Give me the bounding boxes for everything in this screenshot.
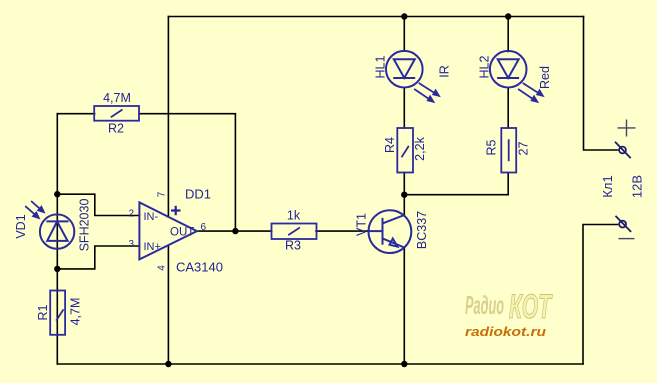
svg-text:2: 2 [129,209,135,220]
LED HL2 [490,51,527,88]
resistor R2 [94,106,139,121]
svg-text:IN+: IN+ [144,241,161,253]
wire R2 right lead to feedback node [140,114,236,231]
svg-text:R2: R2 [108,122,124,136]
wire VT1 base lead [369,230,383,232]
junction node top rail HL1 [401,13,407,19]
svg-text:HL1: HL1 [374,55,388,78]
photodiode VD1 incoming light arrows [25,201,44,218]
svg-text:1k: 1k [287,209,301,223]
svg-text:4,7M: 4,7M [69,298,83,326]
svg-text:R3: R3 [285,239,301,253]
svg-text:VD1: VD1 [14,214,28,238]
wire R3 to VT1 base [316,230,369,232]
wire right side down to plus terminal [584,17,618,151]
junction node feedback/OUT [232,228,238,234]
svg-text:SFH2030: SFH2030 [78,199,92,252]
photodiode VD1 [40,214,74,248]
connector terminal plus [615,142,631,158]
svg-text:7: 7 [157,191,168,197]
LED HL1 emission arrows [414,83,439,102]
svg-text:VT1: VT1 [355,213,369,236]
svg-text:4: 4 [157,265,168,271]
junction node photodiode bottom [54,266,60,272]
wire IN- from photodiode anode node [57,194,139,215]
wire HL1 to R4 [403,88,405,129]
svg-text:4,7M: 4,7M [103,91,131,105]
svg-text:DD1: DD1 [185,187,211,202]
resistor R3 [272,224,317,240]
op-amp plus symbol [171,206,181,215]
svg-text:Кл1: Кл1 [600,175,615,197]
LED HL2 emission arrows [518,83,543,102]
wire VT1 collector to node [403,195,405,215]
connector terminal minus [616,216,632,232]
junction node top rail HL2 [505,13,511,19]
resistor R5 [501,128,516,173]
LED HL1 [386,51,423,88]
wire left vertical branch [56,114,58,364]
resistor R1 [50,291,65,335]
wire collector node to R5 bottom [404,173,508,195]
resistor R4 [397,128,413,173]
svg-text:CA3140: CA3140 [176,260,223,275]
minus polarity sign [619,238,635,240]
wire HL2 to R5 [507,88,509,129]
svg-text:КОТ: КОТ [509,288,553,326]
svg-text:OUT: OUT [170,227,194,239]
svg-text:3: 3 [129,239,135,250]
svg-text:IR: IR [438,65,452,78]
junction node bottom rail emitter [401,361,407,367]
wire bottom rail [57,363,583,365]
svg-text:2,2k: 2,2k [413,136,427,160]
svg-text:27: 27 [517,142,531,156]
junction node photodiode top [54,191,60,197]
svg-text:radiokot.ru: radiokot.ru [465,325,546,339]
wire R2 left lead [57,113,94,115]
wire collector node to R4 [403,173,405,195]
wire IN+ from photodiode cathode node [57,246,139,269]
plus polarity sign [618,120,636,137]
op-amp U1 DD1 [139,202,197,259]
wire OUT to R3 [197,230,272,232]
wire minus terminal to bottom rail [583,225,618,365]
svg-text:HL2: HL2 [478,55,492,78]
svg-text:IN-: IN- [144,211,159,223]
wire pin 7 to top rail [167,17,169,218]
svg-text:BC337: BC337 [415,211,429,249]
wire top rail to HL2 [507,17,509,52]
wire top rail to HL1 [403,17,405,52]
svg-text:12В: 12В [630,175,645,198]
svg-text:R5: R5 [485,139,499,155]
wire pin 4 to bottom rail [167,246,169,364]
svg-text:Радио: Радио [465,290,504,320]
wire VT1 emitter to bottom rail [403,248,405,365]
junction node bottom rail pin4 [165,361,171,367]
wire top rail [168,16,583,18]
svg-text:6: 6 [201,222,207,233]
junction node collector [401,192,407,198]
svg-text:R4: R4 [383,137,397,153]
svg-text:Red: Red [538,66,552,89]
transistor Q1 VT1 [369,210,412,253]
svg-text:R1: R1 [36,304,50,320]
